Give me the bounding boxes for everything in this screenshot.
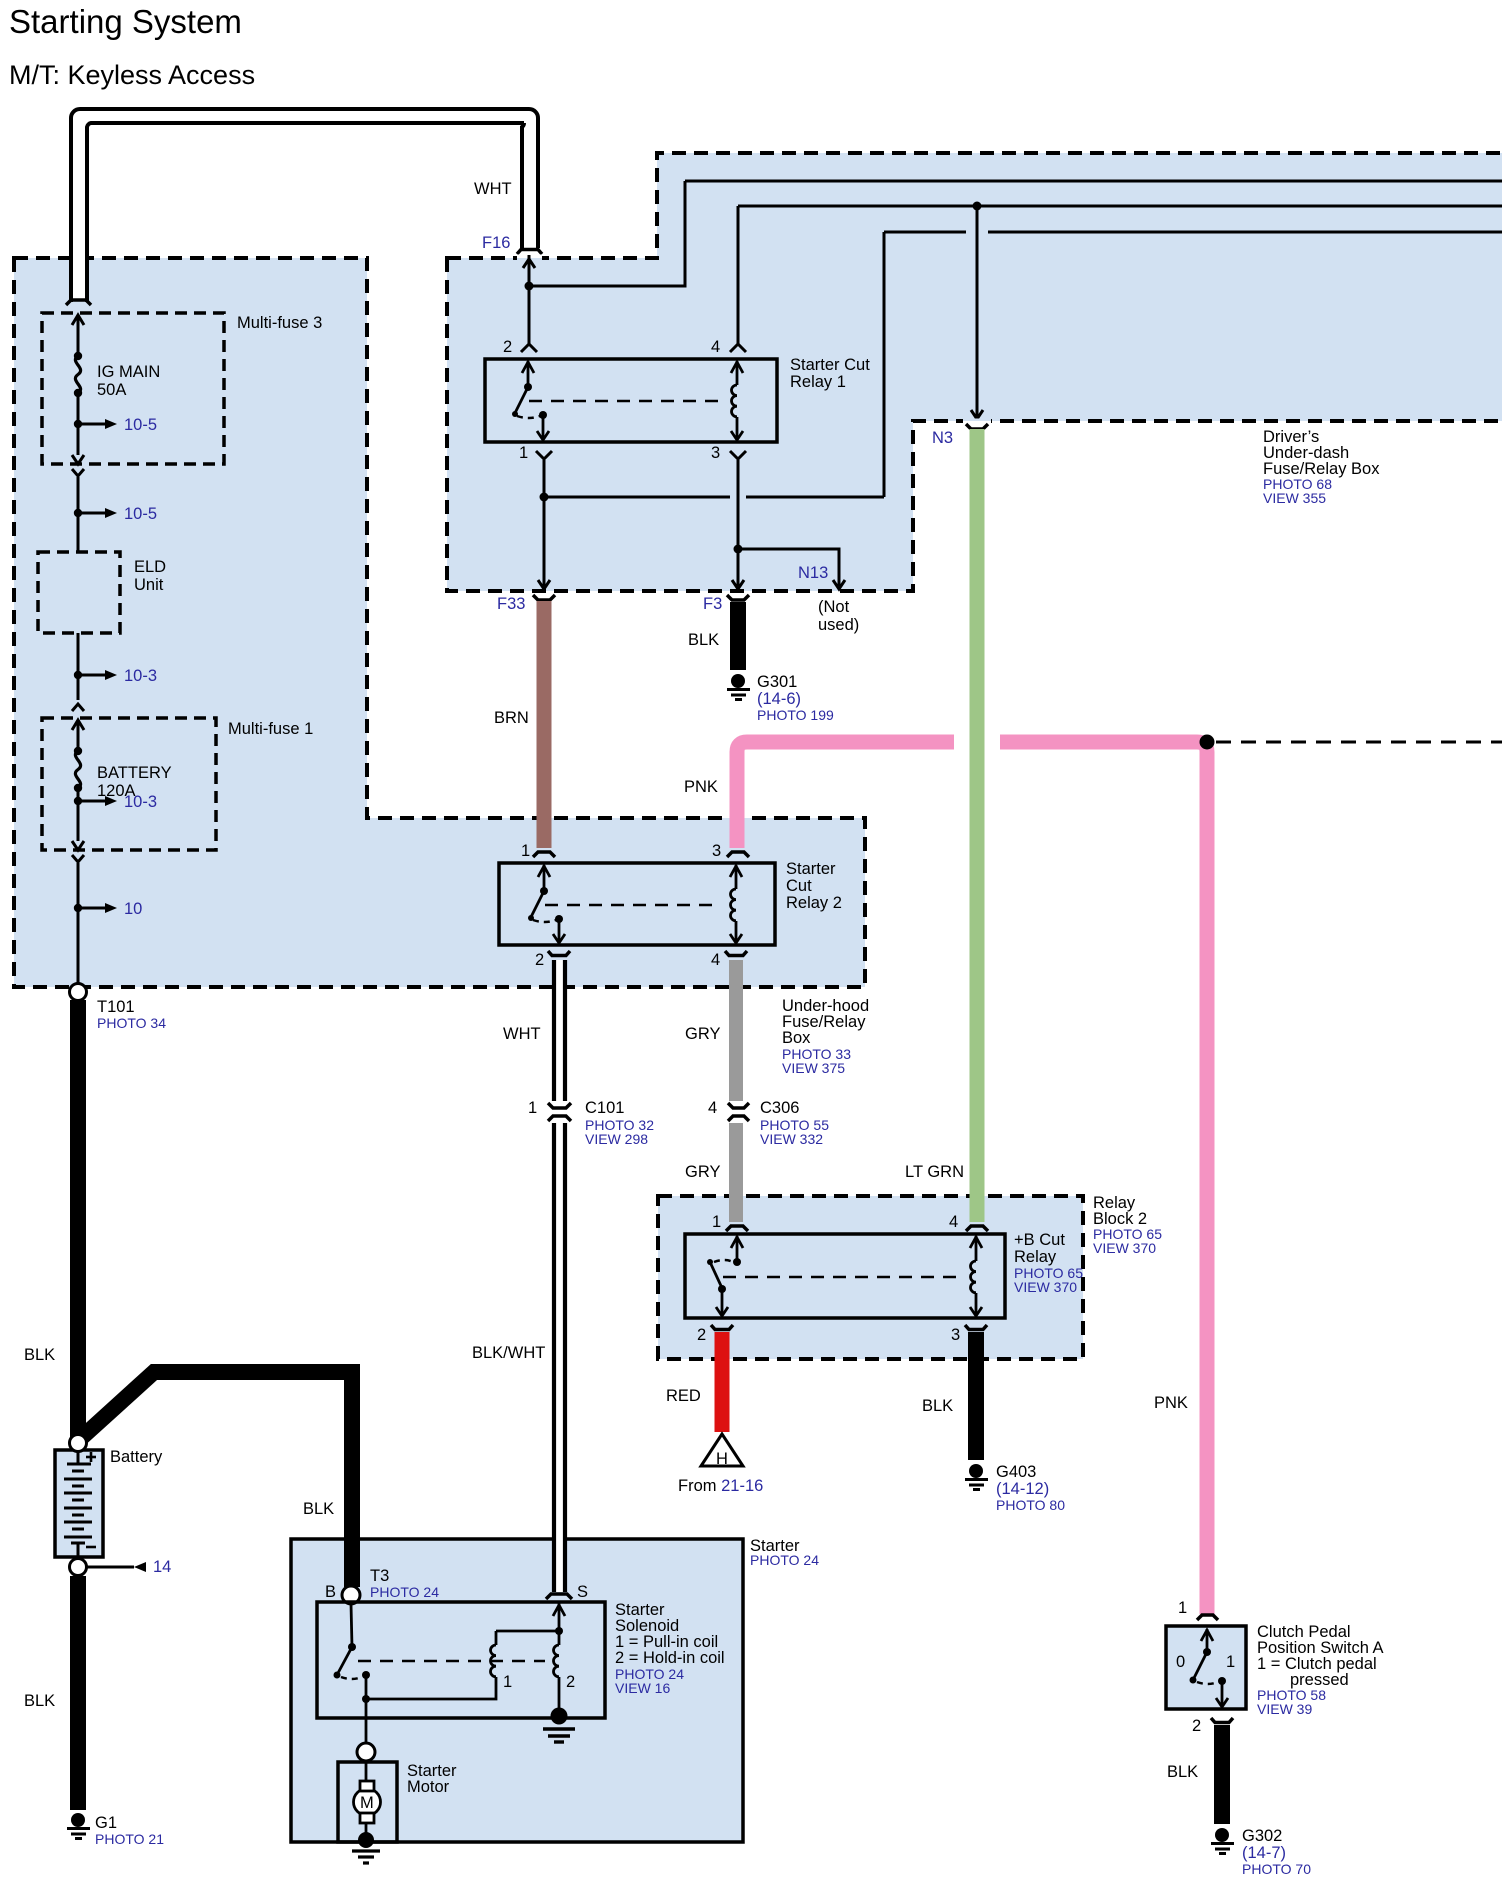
wire GRY C306 to relay block pin 1 <box>729 1123 743 1222</box>
svg-text:BLK: BLK <box>303 1500 334 1518</box>
wire relay1 pin 4 riser <box>737 206 740 346</box>
box Multi-fuse 1 (dashed) <box>42 718 216 850</box>
svg-text:2 = Hold-in coil: 2 = Hold-in coil <box>615 1649 725 1667</box>
connector F16 <box>517 250 542 255</box>
wire horizontal run 2 with node N3 junction <box>738 205 1502 208</box>
svg-text:BLK/WHT: BLK/WHT <box>472 1344 545 1362</box>
connector +B relay pin 4 <box>966 1226 988 1231</box>
svg-text:N3: N3 <box>932 429 953 447</box>
connector relay2 pin 1 <box>533 852 555 857</box>
svg-text:Relay 2: Relay 2 <box>786 894 842 912</box>
branch arrow to 10-5 (second) <box>74 505 157 523</box>
battery negative terminal <box>70 1559 87 1576</box>
wire in multi-fuse 1 <box>77 720 80 841</box>
svg-text:Battery: Battery <box>110 1448 163 1466</box>
relay box Starter Cut Relay 2 <box>499 863 775 945</box>
chevron relay1 pin 3 <box>730 451 746 459</box>
wire WHT double line from left box to F16 (top run) <box>79 116 530 301</box>
terminal starter motor <box>357 1743 375 1761</box>
wire horizontal top run 1 <box>685 180 1502 183</box>
svg-text:Multi-fuse 3: Multi-fuse 3 <box>237 314 322 332</box>
svg-text:1: 1 <box>1226 1653 1235 1671</box>
svg-text:ELD: ELD <box>134 558 166 576</box>
svg-text:N13: N13 <box>798 564 828 582</box>
svg-text:C101: C101 <box>585 1099 624 1117</box>
branch arrow to 10-3 (inside multi-fuse 1) <box>74 793 157 811</box>
box Under-hood Fuse/Relay Box + left fuse box (dashed blue region) <box>14 258 865 987</box>
box Driver's Under-dash Fuse/Relay Box (dashed blue region) <box>447 153 1502 591</box>
coil 2 hold-in <box>554 1645 560 1712</box>
svg-text:From 21-16: From 21-16 <box>678 1477 763 1495</box>
wire S drop with arrow <box>496 1602 565 1645</box>
starter motor box <box>338 1762 397 1842</box>
svg-text:BLK: BLK <box>688 631 719 649</box>
svg-text:PHOTO 34: PHOTO 34 <box>97 1015 166 1031</box>
svg-text:Starting System: Starting System <box>9 3 242 40</box>
svg-text:3: 3 <box>951 1326 960 1344</box>
chevron relay2 pin 2 <box>548 951 570 956</box>
connector relay2 pin 3 <box>727 852 749 857</box>
chevron below multi-fuse 3 <box>72 469 84 476</box>
svg-text:BRN: BRN <box>494 709 529 727</box>
branch arrow to 14 <box>87 1558 171 1576</box>
box ELD Unit (dashed) <box>38 552 120 633</box>
terminal B starter <box>342 1586 360 1604</box>
svg-text:VIEW 370: VIEW 370 <box>1014 1279 1077 1295</box>
wire horizontal run y497 to relay1 pin1 (gap at pin3 wire) <box>544 496 730 499</box>
wire WHT C101 to starter S (double line) <box>552 1123 567 1592</box>
svg-text:WHT: WHT <box>474 180 512 198</box>
ground G301 <box>727 673 834 723</box>
arrow up at multi-fuse 1 top <box>72 720 84 730</box>
svg-text:0: 0 <box>1176 1653 1185 1671</box>
svg-text:2: 2 <box>697 1326 706 1344</box>
wire motor lead <box>365 1761 368 1785</box>
svg-text:VIEW 16: VIEW 16 <box>615 1680 670 1696</box>
svg-text:3: 3 <box>712 842 721 860</box>
svg-text:G403: G403 <box>996 1463 1036 1481</box>
connector C306 <box>728 1103 749 1108</box>
connector F3 <box>727 595 749 600</box>
svg-text:G1: G1 <box>95 1814 117 1832</box>
svg-text:50A: 50A <box>97 381 126 399</box>
connector C101 <box>548 1103 571 1108</box>
svg-text:2: 2 <box>535 951 544 969</box>
svg-text:M/T: Keyless Access: M/T: Keyless Access <box>9 60 255 90</box>
connector +B relay pin 1 <box>726 1226 748 1231</box>
svg-text:PHOTO 199: PHOTO 199 <box>757 707 834 723</box>
svg-text:PHOTO 80: PHOTO 80 <box>996 1497 1065 1513</box>
wire WHT relay2 pin2 to C101 (double line) <box>552 960 567 1101</box>
wire ELD unit to multi-fuse 1 <box>77 633 80 700</box>
wire BRN F33 to relay 2 pin 1 <box>537 601 552 848</box>
svg-text:BATTERY: BATTERY <box>97 764 172 782</box>
solenoid box <box>317 1602 605 1718</box>
wire pull-in coil loop <box>366 1677 496 1699</box>
svg-text:VIEW 39: VIEW 39 <box>1257 1701 1312 1717</box>
triangle connector H (From 21-16) <box>701 1434 743 1466</box>
+B relay switch (mirrored) <box>707 1236 743 1316</box>
chevron +B relay pin 3 <box>965 1325 987 1330</box>
arrow down at multi-fuse 3 bottom <box>72 455 84 464</box>
relay1 internal dashed link <box>529 400 722 403</box>
wire relay1 pin1 to F33 <box>543 460 546 586</box>
ground G1 <box>67 1813 164 1847</box>
svg-text:PHOTO 24: PHOTO 24 <box>370 1584 439 1600</box>
svg-text:H: H <box>716 1450 728 1468</box>
wire BLK T101 to battery (thick) <box>70 1000 86 1437</box>
relay2 internal dashed link <box>545 904 720 907</box>
node junction to N13 <box>734 545 743 554</box>
motor M symbol <box>354 1781 381 1823</box>
svg-text:1: 1 <box>503 1673 512 1691</box>
wire GRY relay2 pin4 to C306 <box>729 960 743 1101</box>
svg-text:10-3: 10-3 <box>124 793 157 811</box>
svg-text:3: 3 <box>711 444 720 462</box>
svg-text:VIEW 298: VIEW 298 <box>585 1131 648 1147</box>
connector N3 <box>966 424 988 429</box>
svg-text:4: 4 <box>708 1099 717 1117</box>
wire LT GRN N3 to relay block 2 pin 4 <box>970 429 985 1222</box>
arrow up at multi-fuse 3 top <box>72 315 84 325</box>
svg-text:VIEW 355: VIEW 355 <box>1263 490 1326 506</box>
svg-text:GRY: GRY <box>685 1025 720 1043</box>
svg-text:10-5: 10-5 <box>124 505 157 523</box>
relay1 switch <box>512 361 549 440</box>
svg-text:Starter Cut: Starter Cut <box>790 356 870 374</box>
wire BLK branch to starter B (thick) <box>79 1372 352 1587</box>
connector bracket at left box entry <box>66 300 91 305</box>
svg-text:T3: T3 <box>370 1567 389 1585</box>
border gap at N3 <box>963 419 991 422</box>
ground below starter motor <box>352 1832 380 1863</box>
box Clutch Pedal Position Switch A (solid border) <box>1166 1626 1246 1709</box>
box Starter (solid border) <box>291 1539 743 1842</box>
relay2 switch <box>528 865 565 943</box>
svg-text:G302: G302 <box>1242 1827 1282 1845</box>
clutch switch internals <box>1176 1629 1235 1707</box>
svg-text:VIEW 375: VIEW 375 <box>782 1060 845 1076</box>
svg-text:S: S <box>577 1583 588 1601</box>
wire BLK clutch to G302 (thick) <box>1214 1725 1230 1824</box>
chevron +B relay pin 2 <box>711 1325 733 1330</box>
branch arrow to 10-5 (inside multi-fuse 3) <box>74 416 157 434</box>
svg-text:BLK: BLK <box>922 1397 953 1415</box>
chevron above multi-fuse 1 <box>72 704 84 711</box>
wire fuse column multi-fuse 3 <box>77 316 80 455</box>
svg-text:BLK: BLK <box>24 1346 55 1364</box>
+B relay coil <box>970 1236 982 1316</box>
chevron relay1 pin 4 <box>730 344 746 352</box>
chevron clutch pin 2 <box>1211 1718 1233 1723</box>
svg-text:RED: RED <box>666 1387 701 1405</box>
relay2 coil <box>730 865 742 943</box>
wire branch to N13 <box>738 549 839 586</box>
wire horizontal run 3 (gap at green wire) <box>884 231 966 234</box>
node junction pink/dashed <box>1200 735 1215 750</box>
+B relay internal dashed link <box>723 1276 960 1279</box>
svg-text:10-5: 10-5 <box>124 416 157 434</box>
svg-text:2: 2 <box>1192 1717 1201 1735</box>
arrow down at multi-fuse 1 bottom <box>72 841 84 850</box>
svg-text:GRY: GRY <box>685 1163 720 1181</box>
svg-text:PHOTO 21: PHOTO 21 <box>95 1831 164 1847</box>
svg-text:(14-12): (14-12) <box>996 1480 1049 1498</box>
relay box Starter Cut Relay 1 <box>485 359 777 442</box>
svg-text:14: 14 <box>153 1558 171 1576</box>
svg-text:2: 2 <box>503 338 512 356</box>
wire BLK +B pin 3 to G403 (thick) <box>968 1332 984 1460</box>
svg-text:PHOTO 70: PHOTO 70 <box>1242 1861 1311 1877</box>
relay box +B Cut Relay <box>685 1234 1005 1318</box>
battery positive terminal <box>70 1435 87 1452</box>
solenoid switch <box>334 1604 371 1703</box>
wire PNK junction to relay 2 pin 3 <box>737 742 954 848</box>
wire N3 drop <box>976 206 979 416</box>
connector F33 <box>533 595 555 600</box>
svg-text:(Not: (Not <box>818 598 850 616</box>
battery cell plates <box>64 1450 92 1560</box>
fuse BATTERY 120A (squiggle) <box>75 751 80 788</box>
svg-text:Relay 1: Relay 1 <box>790 373 846 391</box>
border gap at F16 wire crossing <box>517 255 542 259</box>
branch arrow to 10-3 <box>74 667 157 685</box>
svg-text:F16: F16 <box>482 234 510 252</box>
svg-text:(14-6): (14-6) <box>757 690 801 708</box>
fuse IG MAIN 50A (squiggle) <box>75 356 80 393</box>
svg-text:IG MAIN: IG MAIN <box>97 363 160 381</box>
svg-text:F3: F3 <box>703 595 722 613</box>
wire RED +B pin 2 to H <box>715 1332 730 1432</box>
wire relay1 pin3 to F3 <box>737 460 740 586</box>
wire dashed continuation right <box>1216 741 1502 744</box>
battery minus sign <box>86 1546 96 1549</box>
node junction on F16 wire <box>525 282 534 291</box>
svg-text:Relay: Relay <box>1014 1248 1057 1266</box>
svg-text:Starter: Starter <box>786 860 836 878</box>
chevron below multi-fuse 1 <box>72 855 84 862</box>
svg-text:1: 1 <box>1178 1599 1187 1617</box>
svg-text:1: 1 <box>519 444 528 462</box>
svg-text:1: 1 <box>712 1213 721 1231</box>
svg-text:PNK: PNK <box>1154 1394 1188 1412</box>
svg-text:4: 4 <box>949 1213 958 1231</box>
svg-text:BLK: BLK <box>24 1692 55 1710</box>
chevron relay1 pin 1 <box>536 451 552 459</box>
svg-text:LT GRN: LT GRN <box>905 1163 964 1181</box>
svg-text:10-3: 10-3 <box>124 667 157 685</box>
svg-text:VIEW 332: VIEW 332 <box>760 1131 823 1147</box>
solenoid internal dashed link <box>358 1660 545 1663</box>
relay1 coil <box>731 361 743 440</box>
svg-text:Cut: Cut <box>786 877 812 895</box>
svg-text:(14-7): (14-7) <box>1242 1844 1286 1862</box>
chevron relay1 pin 2 <box>521 344 537 352</box>
svg-text:T101: T101 <box>97 998 135 1016</box>
svg-text:2: 2 <box>566 1673 575 1691</box>
wire riser x884 down to pin1 run <box>883 232 886 497</box>
svg-text:Box: Box <box>782 1029 811 1047</box>
terminal T101 <box>70 984 87 1001</box>
svg-text:M: M <box>360 1794 374 1812</box>
svg-text:10: 10 <box>124 900 142 918</box>
svg-text:used): used) <box>818 616 859 634</box>
wire to T101 <box>77 863 80 984</box>
svg-text:Multi-fuse 1: Multi-fuse 1 <box>228 720 313 738</box>
svg-text:G301: G301 <box>757 673 797 691</box>
coil 1 pull-in <box>490 1631 496 1677</box>
svg-text:1: 1 <box>528 1099 537 1117</box>
ground G403 <box>965 1463 1065 1513</box>
svg-text:WHT: WHT <box>503 1025 541 1043</box>
wire to ELD unit <box>77 477 80 552</box>
wire F16 down to relay 1 pin 2 <box>528 255 531 346</box>
svg-text:1: 1 <box>521 842 530 860</box>
chevron relay2 pin 4 <box>725 951 747 956</box>
svg-text:Motor: Motor <box>407 1778 450 1796</box>
svg-text:F33: F33 <box>497 595 525 613</box>
svg-text:BLK: BLK <box>1167 1763 1198 1781</box>
svg-text:B: B <box>325 1583 336 1601</box>
box Multi-fuse 3 (dashed) <box>42 313 224 464</box>
wire solenoid to starter motor <box>365 1699 368 1743</box>
wire junction to right riser <box>529 181 685 286</box>
wire BLK F3 to G301 (thick) <box>730 602 746 670</box>
branch arrow to 10 <box>74 900 143 918</box>
battery plus sign <box>86 1452 96 1462</box>
connector starter S terminal <box>546 1594 572 1599</box>
box Relay Block 2 (dashed blue region) <box>658 1196 1083 1359</box>
wire motor to ground <box>365 1823 368 1836</box>
box Battery (solid border) <box>55 1450 103 1557</box>
svg-text:PNK: PNK <box>684 778 718 796</box>
ground G302 <box>1211 1827 1311 1877</box>
svg-text:PHOTO 24: PHOTO 24 <box>750 1552 819 1568</box>
connector clutch pin 1 <box>1197 1615 1218 1620</box>
svg-text:VIEW 370: VIEW 370 <box>1093 1240 1156 1256</box>
ground inside solenoid <box>543 1708 575 1743</box>
svg-text:4: 4 <box>711 951 720 969</box>
svg-text:Unit: Unit <box>134 576 164 594</box>
wire BLK battery to G1 (thick) <box>70 1576 86 1810</box>
svg-text:C306: C306 <box>760 1099 799 1117</box>
svg-text:+B Cut: +B Cut <box>1014 1231 1065 1249</box>
svg-text:4: 4 <box>711 338 720 356</box>
